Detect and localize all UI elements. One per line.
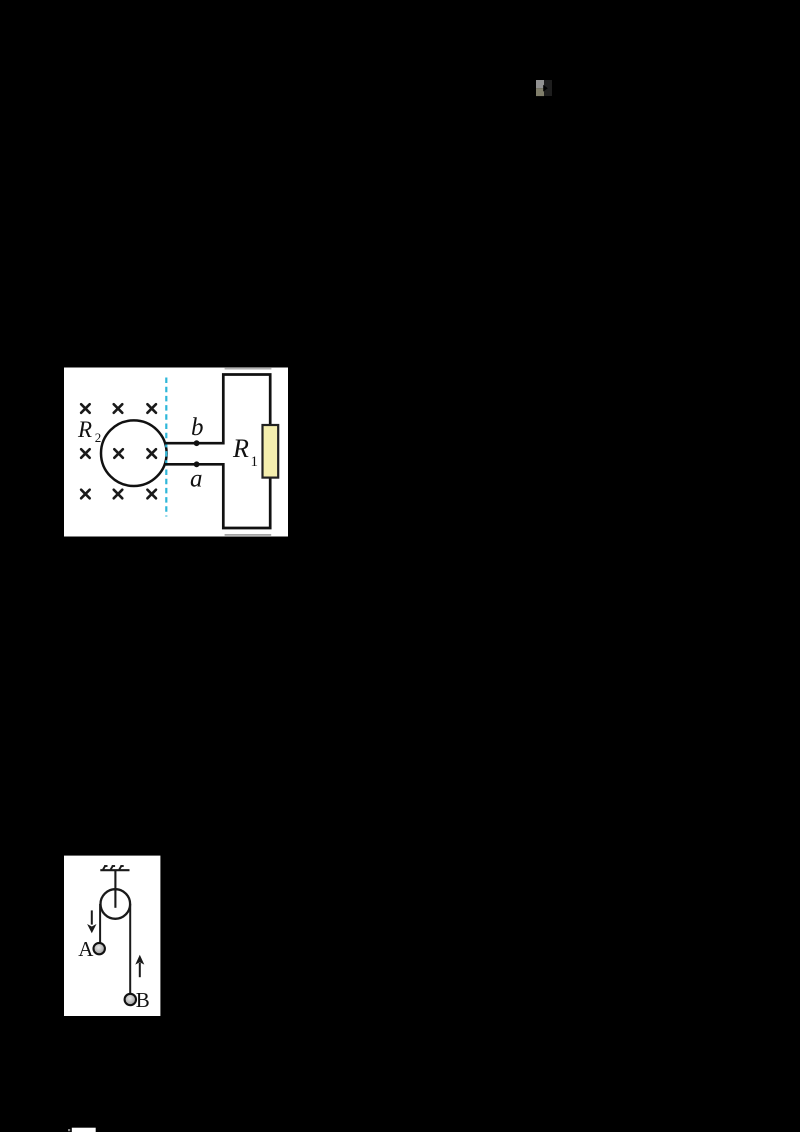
bottom-left gray dot [68,1129,70,1131]
ceiling hatch 3 [119,866,124,870]
up arrow (B side) [135,955,144,978]
svg-text:B: B [136,988,150,1012]
right rope [129,904,131,994]
field cross row3 col1 [81,490,90,499]
field cross row1 col2 [114,404,123,413]
ceiling hatch 2 [111,866,116,870]
figure 1 gray bottom bar [225,534,272,536]
node b [194,440,200,446]
small icon top (gray square light half) [536,80,544,88]
svg-text:2: 2 [95,430,102,445]
bottom-left white fragment [72,1128,96,1132]
coil loop (circle) [101,420,167,486]
field cross row2 col1 [81,449,90,458]
ceiling hatch 1 [103,866,108,870]
ceiling line [100,869,129,871]
left rope [99,904,101,943]
small icon top (gray square olive half) [536,88,544,96]
small icon arrow [543,85,548,92]
small icon top (dark square) [544,80,552,96]
svg-text:R: R [232,434,249,463]
svg-text:R: R [77,417,92,442]
label R2 [77,417,101,445]
label R1 [232,434,258,470]
support rod [114,870,116,908]
svg-text:a: a [190,465,203,492]
node a [194,461,200,467]
field cross row1 col3 [147,404,156,413]
figure 1 panel background [64,368,288,537]
field cross row3 col3 [147,490,156,499]
field cross row3 col2 [114,490,123,499]
field cross row2 col3 [147,449,156,458]
field cross row2 col2 [114,449,123,458]
wire loop-to-circuit (outer rectangle with leads a,b) [164,375,270,529]
ball B [125,994,136,1005]
field cross row1 col1 [81,404,90,413]
figure 1 gray top bar [225,368,272,370]
ball A [94,943,105,954]
svg-text:b: b [191,414,204,441]
svg-text:A: A [78,937,94,961]
pulley wheel [101,889,131,919]
figure 2 panel background [64,856,160,1016]
resistor R1 body [263,425,279,478]
down arrow (A side) [87,910,96,933]
field boundary dashed line [165,378,167,517]
svg-text:1: 1 [251,454,259,470]
